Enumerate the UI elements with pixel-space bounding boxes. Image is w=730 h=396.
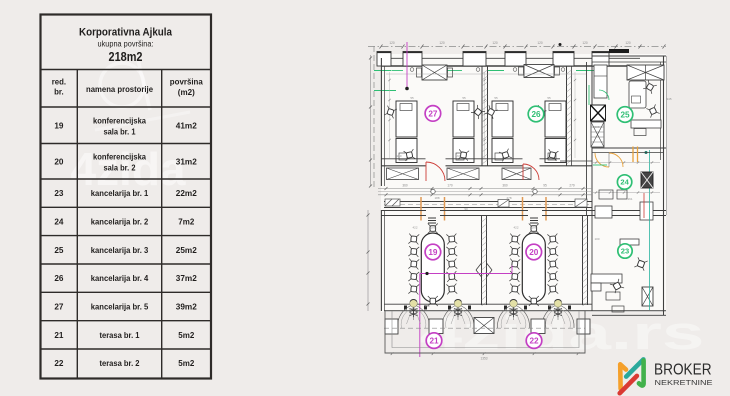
svg-text:kancelarija br. 3: kancelarija br. 3 — [91, 246, 149, 255]
office 26 chair left-bottom — [499, 149, 512, 162]
svg-text:120: 120 — [625, 41, 631, 45]
svg-text:422: 422 — [412, 226, 417, 230]
door gap office 26 — [523, 158, 540, 168]
orange heater marks room 20 door — [522, 197, 524, 221]
office 26 vent strip — [524, 65, 554, 78]
office bottom wall — [381, 158, 560, 160]
room 25 xbox black — [591, 105, 606, 121]
svg-text:24: 24 — [620, 178, 629, 187]
room 25 chair 1 — [643, 80, 657, 94]
room 25 chair 2 — [646, 104, 659, 117]
svg-text:19: 19 — [428, 248, 438, 257]
svg-text:kancelarija br. 1: kancelarija br. 1 — [91, 189, 149, 198]
room 23 chair 1 — [634, 257, 647, 270]
svg-text:140: 140 — [424, 304, 429, 308]
table row lines — [41, 69, 212, 71]
svg-text:22: 22 — [529, 337, 539, 346]
magenta stub at line end — [511, 266, 513, 274]
room circle 24 — [617, 175, 631, 189]
room 24 bottom wall — [592, 210, 666, 212]
room 23 left wall — [591, 215, 593, 311]
window glazing green segments — [392, 70, 404, 72]
svg-text:90: 90 — [464, 207, 468, 211]
svg-text:22: 22 — [54, 359, 64, 368]
office 27 chair left-bottom — [404, 149, 416, 161]
office 27 chair right-bottom — [458, 149, 469, 160]
svg-text:ukupna površina:: ukupna površina: — [98, 40, 154, 49]
svg-text:24: 24 — [54, 218, 64, 227]
svg-text:4zida.rs: 4zida.rs — [420, 306, 705, 359]
room circle 26 — [528, 106, 544, 122]
green sill left — [374, 90, 396, 92]
broker logo icon green stroke — [639, 361, 644, 386]
left dim line lower — [367, 210, 369, 311]
room 24 dim lines — [592, 162, 660, 164]
svg-text:278: 278 — [506, 196, 511, 200]
svg-text:55: 55 — [494, 96, 498, 100]
svg-text:218m2: 218m2 — [109, 49, 143, 64]
terrace posts — [429, 319, 443, 334]
left boundary dashed line — [373, 46, 375, 188]
svg-text:BROKER: BROKER — [654, 362, 712, 379]
svg-text:120: 120 — [439, 41, 445, 45]
table column lines — [76, 70, 78, 379]
door gap room 20 — [528, 210, 542, 217]
room circle 25 — [617, 107, 633, 123]
magenta riser line top — [406, 42, 408, 88]
svg-text:120: 120 — [582, 41, 588, 45]
room 25 desk bottom — [631, 120, 661, 128]
svg-text:25m2: 25m2 — [176, 246, 197, 255]
conference rooms bottom wall — [384, 303, 592, 305]
magenta vertical line — [419, 274, 421, 358]
svg-text:NEKRETNINE: NEKRETNINE — [655, 380, 713, 387]
svg-text:23: 23 — [54, 189, 64, 198]
door circle room 20 — [533, 189, 537, 193]
top dimension ticks — [380, 45, 383, 49]
wall office 26 | shaft — [566, 66, 568, 166]
svg-text:23: 23 — [621, 247, 629, 256]
svg-text:39m2: 39m2 — [176, 303, 197, 312]
svg-text:37m2: 37m2 — [176, 274, 197, 283]
svg-text:1353: 1353 — [480, 357, 487, 361]
wall hatch marks bottom — [404, 306, 407, 310]
svg-text:120: 120 — [537, 41, 543, 45]
svg-text:360: 360 — [402, 184, 408, 188]
office 26 chair left-top — [484, 105, 498, 119]
room 23 sofa L — [591, 274, 622, 283]
magenta horizontal line — [420, 273, 512, 275]
svg-text:19: 19 — [54, 122, 64, 131]
office 27 desk right — [453, 101, 474, 137]
svg-text:188: 188 — [430, 226, 435, 230]
room circle 27 — [425, 106, 441, 122]
svg-text:360: 360 — [502, 184, 508, 188]
office 27 chair right-top — [471, 105, 485, 119]
left exterior wall — [380, 58, 382, 186]
svg-text:br.: br. — [54, 88, 64, 97]
svg-text:22m2: 22m2 — [176, 189, 197, 198]
svg-text:279: 279 — [569, 184, 575, 188]
top exterior wall — [381, 65, 640, 67]
svg-text:26: 26 — [531, 110, 541, 119]
left dimension line — [370, 55, 372, 186]
orange heater marks room 19 door — [420, 197, 422, 221]
office 26 chair right-top — [533, 105, 547, 119]
svg-text:160: 160 — [396, 154, 401, 158]
room 23 chair 2 — [610, 279, 624, 293]
info table frame — [41, 15, 212, 379]
wall rooms 20 | 23 — [582, 215, 584, 305]
terrace fan at 558 — [542, 305, 558, 329]
broker logo icon orange stroke — [620, 364, 626, 388]
room 24 top wall — [592, 147, 666, 149]
room 23 small table — [606, 292, 620, 300]
left wall conference band — [380, 210, 382, 311]
svg-text:345: 345 — [666, 97, 671, 101]
svg-text:Korporativna Ajkula: Korporativna Ajkula — [79, 27, 173, 39]
svg-text:20: 20 — [54, 158, 64, 167]
magenta junction dot — [425, 272, 428, 275]
floor plan white paper — [381, 54, 666, 312]
svg-text:161: 161 — [627, 197, 632, 201]
terrace dashed line — [384, 327, 585, 329]
svg-text:100: 100 — [594, 237, 599, 241]
svg-text:kancelarija br. 4: kancelarija br. 4 — [91, 274, 149, 283]
terrace fan at 513.5 — [497, 305, 513, 329]
office 27 chair left-top — [384, 106, 397, 119]
room 25 closet strip — [627, 65, 664, 80]
room 23 fixture — [612, 306, 624, 312]
junction dot top middle — [559, 43, 562, 46]
room 23 red service line — [643, 193, 645, 218]
room 24 xbox — [641, 172, 653, 188]
radiator boxes below offices — [387, 168, 419, 180]
svg-text:21: 21 — [54, 331, 64, 340]
svg-text:konferencijska: konferencijska — [93, 153, 146, 162]
terrace outer outline — [385, 311, 585, 353]
svg-text:188: 188 — [531, 226, 536, 230]
svg-text:površina: površina — [170, 78, 204, 87]
door gap office 27 — [426, 158, 446, 168]
terrace fan at 413.5 — [397, 305, 413, 329]
room circle 23 — [618, 244, 632, 258]
broker logo icon teal stroke — [626, 359, 643, 376]
svg-text:5m2: 5m2 — [178, 359, 194, 368]
svg-text:kancelarija br. 5: kancelarija br. 5 — [91, 303, 149, 312]
room 25 cabinet left — [594, 65, 607, 98]
room circle 21 — [426, 333, 442, 349]
office 27 red door arc — [426, 162, 445, 181]
svg-text:508: 508 — [594, 125, 599, 129]
vent duct thin line across offices — [386, 73, 586, 75]
office 26 desk right — [545, 101, 566, 137]
svg-text:kancelarija br. 2: kancelarija br. 2 — [91, 218, 149, 227]
svg-text:160: 160 — [455, 154, 460, 158]
wall rooms 19 | 20 — [481, 215, 483, 305]
svg-text:55: 55 — [547, 96, 551, 100]
door circle room 19 — [431, 189, 435, 193]
corridor dimension lines — [378, 188, 592, 190]
room 24 orange door arc — [609, 153, 623, 167]
top wall crenel blocks — [377, 52, 391, 67]
room 23 desk — [620, 239, 639, 245]
svg-text:120: 120 — [492, 41, 498, 45]
svg-text:20: 20 — [529, 248, 539, 257]
right exterior wall — [663, 56, 665, 312]
shaft hatch strip — [591, 122, 604, 147]
teal service line — [649, 150, 651, 310]
room 25 table top — [629, 81, 646, 108]
svg-text:27: 27 — [54, 303, 64, 312]
svg-text:5m2: 5m2 — [178, 331, 194, 340]
svg-text:(m2): (m2) — [178, 88, 195, 97]
office interior dim ticks — [389, 72, 391, 158]
office 27 desk left — [396, 101, 417, 137]
teal dot room 24 — [645, 151, 648, 154]
conference table room 20 — [522, 233, 545, 302]
svg-text:188: 188 — [434, 196, 439, 200]
room 23 bottom wall — [592, 314, 666, 316]
svg-text:sala br. 1: sala br. 1 — [104, 128, 136, 137]
svg-text:55: 55 — [410, 96, 414, 100]
room circle 19 — [425, 244, 441, 260]
terrace top wall dashed band — [384, 201, 592, 203]
svg-text:red.: red. — [52, 78, 66, 87]
svg-text:sala br. 2: sala br. 2 — [104, 164, 136, 173]
top dimension dash-dot line — [368, 46, 666, 48]
svg-text:25: 25 — [54, 246, 64, 255]
top wall black block right — [609, 49, 629, 53]
svg-text:120: 120 — [389, 41, 395, 45]
svg-text:140: 140 — [548, 304, 553, 308]
svg-text:konferencijska: konferencijska — [93, 117, 146, 126]
office 27 vent xbox — [422, 65, 447, 80]
room 23 closet top-left — [595, 206, 612, 218]
svg-text:namena prostorije: namena prostorije — [86, 85, 154, 94]
office 26 desk left — [492, 101, 513, 137]
door gap room 19 — [426, 210, 440, 217]
svg-text:26: 26 — [54, 274, 64, 283]
shaft walls left of room 25 — [586, 62, 588, 215]
svg-text:170: 170 — [447, 184, 453, 188]
junction dot office 27 — [405, 87, 409, 91]
svg-text:41m2: 41m2 — [176, 122, 197, 131]
room 24 orange marks — [632, 147, 634, 163]
svg-text:21: 21 — [429, 337, 439, 346]
svg-text:55: 55 — [462, 96, 466, 100]
svg-text:95: 95 — [543, 184, 547, 188]
room circle 22 — [526, 333, 542, 349]
room 23 tall xbox — [642, 287, 653, 306]
door leafs 19/20 — [476, 263, 482, 270]
room 24 small fixtures — [599, 190, 613, 199]
svg-text:25: 25 — [620, 110, 630, 119]
office 26 chair right-bottom — [547, 149, 559, 161]
svg-text:31m2: 31m2 — [176, 158, 197, 167]
room circle 20 — [526, 244, 542, 260]
wall office 27 | 26 — [481, 66, 483, 166]
right wall inner line — [665, 56, 667, 215]
svg-text:422: 422 — [513, 226, 518, 230]
room 25 top wall — [592, 55, 666, 57]
terrace fan at 458 — [442, 305, 458, 329]
conference rooms top wall — [381, 210, 592, 212]
room 24 green shelf — [593, 164, 607, 166]
broker logo icon red stroke — [620, 376, 637, 393]
watermark outline ghost circle behind table — [100, 63, 144, 107]
svg-text:terasa br. 1: terasa br. 1 — [100, 331, 140, 340]
green window shaft wall — [588, 85, 590, 105]
svg-text:27: 27 — [428, 109, 438, 118]
conference table room 19 — [421, 233, 444, 302]
corridor hatch boxes — [385, 199, 587, 207]
svg-text:terasa br. 2: terasa br. 2 — [100, 359, 140, 368]
room 25 green door arc — [599, 90, 609, 100]
svg-text:7m2: 7m2 — [178, 218, 194, 227]
vent circles under crenels — [410, 68, 414, 72]
room 23 cabinet top-right — [640, 202, 653, 220]
office 26 red door arc — [523, 164, 539, 180]
